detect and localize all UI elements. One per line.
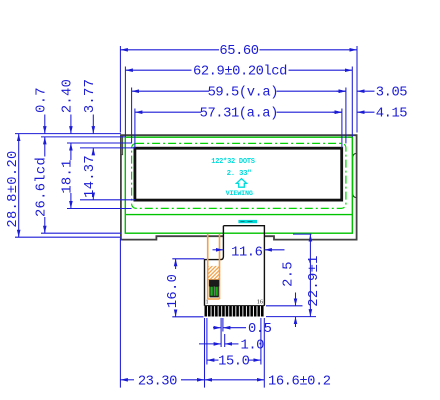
ext line pins bottom right xyxy=(266,316,316,318)
svg-text:57.31(a.a): 57.31(a.a) xyxy=(200,105,278,121)
ext line module left top xyxy=(119,46,121,133)
dimension 14.37 line lower segment xyxy=(92,198,94,200)
connector pin comb xyxy=(205,306,265,317)
svg-text:16.6±0.2: 16.6±0.2 xyxy=(268,374,331,389)
svg-text:4.15: 4.15 xyxy=(376,107,407,122)
ext line aa right top xyxy=(341,109,343,149)
svg-text:16.0: 16.0 xyxy=(166,274,181,308)
svg-text:22.9±1: 22.9±1 xyxy=(307,255,322,306)
svg-text:23.30: 23.30 xyxy=(138,374,177,389)
ext line 16.0 top xyxy=(172,258,204,260)
svg-text:3.77: 3.77 xyxy=(83,79,98,113)
svg-text:26.6lcd: 26.6lcd xyxy=(34,157,50,217)
cyan backlight tab xyxy=(238,220,257,223)
dimension 11.6 arrows xyxy=(213,249,224,251)
FPC tail (orange) xyxy=(208,234,220,299)
dimension 26.6lcd line lower segment xyxy=(44,217,46,233)
dimension 3.05 arrows xyxy=(337,90,346,92)
viewing area dash-dot rectangle xyxy=(132,143,346,208)
FPC connector outline xyxy=(205,226,265,306)
dimension 16.0 line xyxy=(175,259,177,269)
dimension 22.9 line xyxy=(309,234,311,317)
svg-text:2. 33": 2. 33" xyxy=(227,170,252,178)
svg-text:16: 16 xyxy=(257,299,263,306)
ext line fpc right down xyxy=(263,318,265,388)
dimension 18.1 line upper segment xyxy=(70,143,72,160)
ext line pin edge a xyxy=(220,318,222,347)
svg-text:0.7: 0.7 xyxy=(35,87,50,113)
dimension 23.30 line xyxy=(120,379,134,381)
pin comb base line xyxy=(205,305,265,307)
ext line 22.9 top ref xyxy=(293,233,312,235)
svg-text:15.0: 15.0 xyxy=(218,354,249,369)
dimension 3.77 arrow xyxy=(92,115,94,134)
dimension 16.6 line xyxy=(205,379,265,381)
ext line aa left top xyxy=(134,109,136,149)
ext line module left down xyxy=(119,239,121,388)
dimension 28.8 line xyxy=(18,134,20,238)
LCD glass outline (green) xyxy=(125,137,352,233)
svg-text:62.9±0.20lcd: 62.9±0.20lcd xyxy=(193,63,287,79)
dimension 18.1 line lower segment xyxy=(70,193,72,209)
svg-text:122*32 DOTS: 122*32 DOTS xyxy=(211,158,255,166)
component block on FPC xyxy=(209,280,219,287)
ext line pin edge b xyxy=(222,318,224,332)
ext line lcd right top xyxy=(351,67,353,138)
frame right inner wall and notch xyxy=(353,153,357,197)
dimension 15.0 line xyxy=(207,359,219,361)
ext line pins top right xyxy=(266,305,303,307)
dimension 2.40 arrow xyxy=(70,115,72,134)
ext line pin16 center down xyxy=(260,318,262,365)
svg-text:11.6: 11.6 xyxy=(231,245,262,260)
LCD glass ledge line xyxy=(125,214,352,216)
svg-text:18.1: 18.1 xyxy=(61,159,76,193)
ext line va bottom left xyxy=(67,208,132,210)
ext line pin edge c xyxy=(224,334,226,347)
dimension 65.60 line xyxy=(120,49,219,51)
dimension 0.5 arrows xyxy=(213,327,221,329)
svg-text:2.40: 2.40 xyxy=(61,79,76,113)
ext line pins bottom left xyxy=(172,316,203,318)
svg-text:65.60: 65.60 xyxy=(219,44,258,59)
svg-text:3.05: 3.05 xyxy=(376,86,407,101)
svg-text:0.5: 0.5 xyxy=(248,322,272,337)
module metal frame outline xyxy=(121,135,357,239)
dimension 1.0 arrows xyxy=(199,343,221,345)
svg-text:1.0: 1.0 xyxy=(241,338,265,353)
ext line aa top left xyxy=(80,147,135,149)
ext line lcd bottom left xyxy=(41,232,121,234)
dimension 14.37 line upper segment xyxy=(92,148,94,155)
green parts on FPC xyxy=(210,286,213,296)
ext line fpc left down xyxy=(204,318,206,388)
frame left inner wall xyxy=(121,135,123,154)
cyan viewing direction arrow glyph xyxy=(236,179,246,188)
ext line module right top xyxy=(356,46,358,133)
svg-text:14.37: 14.37 xyxy=(83,155,98,198)
ext line lcd left top xyxy=(124,67,126,138)
active area border (black) xyxy=(135,148,342,200)
dimension 26.6lcd line upper segment xyxy=(44,137,46,157)
ext line module bottom left xyxy=(15,236,121,238)
svg-text:1: 1 xyxy=(206,299,209,306)
svg-text:28.8±0.20: 28.8±0.20 xyxy=(6,150,21,227)
dimension 59.5 line xyxy=(132,90,209,92)
dimension 57.31 line xyxy=(135,111,201,113)
svg-text:VIEWING: VIEWING xyxy=(226,190,253,198)
ext line va right top xyxy=(345,88,347,144)
ext line va left top xyxy=(131,88,133,144)
ext line lcd top left xyxy=(41,136,125,138)
svg-text:59.5(v.a): 59.5(v.a) xyxy=(208,84,278,100)
dimension 0.7 arrow xyxy=(44,115,46,134)
dimension 2.5 arrows xyxy=(295,293,297,306)
dimension 62.9 line xyxy=(125,69,191,71)
FPC hatch region xyxy=(208,266,219,279)
ext line module top left xyxy=(15,133,121,135)
dimension 4.15 arrows xyxy=(333,111,342,113)
svg-text:2.5: 2.5 xyxy=(281,261,296,287)
ext line aa bottom left xyxy=(80,199,135,201)
ext line va top left xyxy=(67,142,132,144)
ext line pin1 center down xyxy=(206,318,208,365)
